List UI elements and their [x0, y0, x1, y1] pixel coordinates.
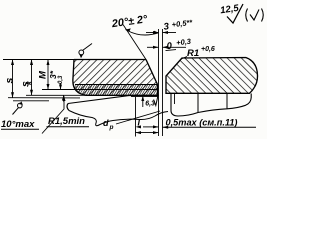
dimension M — [38, 60, 50, 90]
svg-text:+0,6: +0,6 — [201, 46, 215, 53]
svg-text:20°± 2°: 20°± 2° — [110, 13, 149, 30]
roughness 6,3 on groove face (rotated) — [141, 95, 158, 108]
leader with circle on plate top surface — [79, 44, 92, 59]
svg-text:R1,5min: R1,5min — [48, 116, 85, 127]
backing ring, left part: taper 10°, tip, wavy break line — [67, 96, 168, 126]
vertical extension line x=136.5 (l dimension) — [135, 97, 137, 137]
ring taper top edge (10° bevelled end) — [68, 96, 158, 104]
left plate body (hatched section) — [73, 60, 158, 96]
dimension 0 +0,3 (gap) — [147, 37, 192, 53]
dimension s — [4, 60, 16, 98]
svg-text:3*: 3* — [48, 70, 58, 79]
label R1 +0,6 with leader to chamfer — [181, 46, 215, 59]
lip internal line y=84.5 — [75, 84, 158, 86]
svg-text:0,5max (см.п.11): 0,5max (см.п.11) — [166, 118, 238, 128]
top reference line (plate top extended left) — [3, 59, 74, 61]
svg-text:+0,3: +0,3 — [176, 37, 193, 48]
svg-text:M: M — [38, 70, 49, 79]
svg-text:p: p — [109, 124, 114, 131]
svg-text:k: k — [27, 80, 34, 85]
left plate bevel edge (with thin extension above) — [123, 25, 158, 85]
lip bottom reference line y=95.3 (extends left for 3-0,3 dim) — [26, 94, 103, 96]
bottom reference line for s — [8, 97, 80, 99]
lip internal line y=89.5 (M reference, extends left) — [42, 89, 158, 91]
angle dimension arc 20° — [126, 28, 159, 35]
surface finish 12,5 with check mark — [220, 3, 243, 23]
label d_p with leader — [103, 111, 160, 131]
ring inner edge line — [174, 93, 176, 104]
vertical extension line x=162.5 — [162, 29, 164, 136]
svg-text:-0,3: -0,3 — [58, 75, 64, 86]
dimension row 2 (double arrow) — [136, 131, 159, 134]
label 10°max with shelf — [1, 119, 39, 130]
surface finish (check) in parentheses — [246, 9, 264, 22]
svg-text:3: 3 — [163, 21, 170, 33]
ring division line 2 — [226, 93, 228, 109]
ring division line 1 — [197, 93, 199, 112]
svg-text:d: d — [103, 118, 109, 128]
ring break (wavy) line — [69, 111, 168, 126]
label R1,5min with leader to ring fillet — [42, 96, 89, 134]
dimension 3 +0,5** (gap at top) — [146, 18, 194, 34]
backing ring, right part under right plate — [171, 93, 251, 116]
ring tip front edge — [67, 104, 69, 111]
leader with circle for 10°max — [13, 101, 23, 114]
svg-text:s: s — [4, 78, 16, 84]
svg-text:10°max: 10°max — [1, 119, 35, 130]
reference line for 10° — [13, 100, 49, 102]
dense hatch band of the thin lip — [74, 85, 158, 96]
dimension l (row 1) — [136, 118, 159, 129]
dimension s_k — [20, 60, 34, 96]
label 0,5max (см.п.11) on leader shelf — [163, 118, 257, 129]
right plate (hatched section) — [166, 58, 258, 94]
vertical extension line x=158.5 — [158, 29, 160, 136]
svg-text:6,3: 6,3 — [145, 101, 155, 108]
svg-text:+0,5**: +0,5** — [171, 18, 194, 30]
dimension 3*-0,3 (outside arrows) — [48, 70, 65, 101]
svg-text:R1: R1 — [187, 48, 199, 59]
